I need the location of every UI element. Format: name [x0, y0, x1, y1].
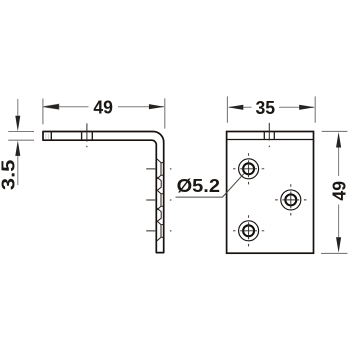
dimension 49 top-left: arrowheads: [43, 104, 59, 109]
dimension 49 top-left: extension lines: [43, 98, 165, 128]
front view: plate outline: [227, 132, 314, 254]
front view: top band hole edge left: [263, 132, 265, 140]
front view: top band hole center line: [268, 123, 270, 147]
dimension 3.5 left: extension lines: [8, 132, 34, 141]
side view: mark near left end: [50, 132, 52, 141]
svg-text:Ø5.2: Ø5.2: [177, 175, 220, 196]
dimension 49 right: dimension line: [338, 147, 340, 238]
dimension 35 top: extension lines: [227, 96, 315, 122]
dimension 35 top: arrowheads: [228, 105, 244, 110]
dimension 49 right: arrowheads: [336, 132, 341, 148]
side view: hole center line 1: [146, 168, 171, 170]
hole H3 center cross: [233, 215, 264, 246]
hole H1 outer circle: [239, 159, 259, 179]
hole H3 inner circle: [243, 225, 254, 236]
side view: left end faint countersink marks: [46, 134, 48, 140]
front view: bend line (top band): [227, 139, 314, 141]
side view: hole edge right: [91, 132, 93, 141]
side view: hole center line 2: [146, 199, 171, 201]
dimension 35 top: dimension line: [229, 106, 314, 108]
side view: chevron between holes 1-2: [157, 177, 161, 190]
side view: hole edge left: [81, 132, 83, 141]
dimension 3.5 left: dimension lines with arrows: [17, 99, 19, 185]
svg-text:49: 49: [328, 181, 349, 201]
side view: chevron between holes 2-3: [157, 208, 161, 221]
svg-text:3.5: 3.5: [0, 160, 19, 191]
dimension 49 right: extension lines: [321, 131, 347, 253]
hole H1 inner circle: [243, 163, 254, 174]
side view: hole center line 3: [146, 230, 171, 232]
side view: hole profile 3: [157, 221, 164, 241]
side view: hole center line vertical: [86, 123, 88, 147]
svg-text:49: 49: [93, 97, 113, 118]
dimension 49 top-left: dimension line: [43, 104, 164, 109]
side view: horizontal leg outline with corner: [43, 132, 164, 253]
hole H2 center cross: [275, 184, 306, 215]
svg-text:35: 35: [256, 97, 276, 118]
front view: top band hole edge right: [273, 132, 275, 140]
label diameter 5.2: underline and leader: [176, 173, 245, 197]
side view: hole profile 2: [157, 190, 164, 210]
hole H2 outer circle: [281, 190, 301, 210]
hole H2 inner circle: [285, 194, 296, 205]
side view: hole profile 1: [157, 159, 164, 179]
hole H1 center cross: [233, 153, 264, 184]
hole H3 outer circle: [239, 221, 259, 241]
